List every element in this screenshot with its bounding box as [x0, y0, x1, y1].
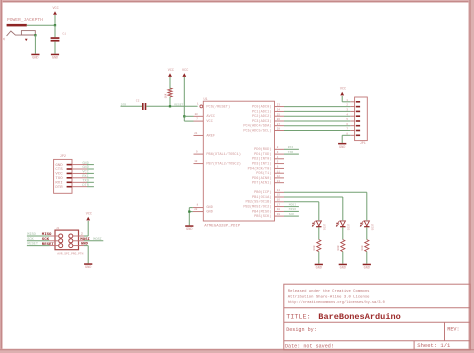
- svg-text:1: 1: [197, 102, 199, 105]
- connector JP1 body: [355, 97, 368, 141]
- wire R2 to ground: [318, 252, 320, 264]
- svg-text:PD7(AIN1): PD7(AIN1): [252, 181, 271, 186]
- LED LED3: [360, 221, 370, 227]
- svg-text:330: 330: [361, 245, 364, 251]
- svg-text:2: 2: [277, 146, 279, 149]
- wire PD0 RXI: [284, 148, 299, 150]
- svg-text:GND: GND: [82, 162, 88, 166]
- J1 ISP pin circles: [59, 234, 73, 248]
- wire VCC arrow stem: [54, 15, 56, 25]
- resistor R4: [365, 240, 369, 252]
- svg-text:13: 13: [277, 180, 281, 183]
- ground symbol below U1: [185, 225, 193, 232]
- svg-text:PD3(INT1): PD3(INT1): [252, 162, 271, 167]
- junction GND net: [188, 210, 190, 212]
- U1 PD4 pin stub: [275, 167, 285, 169]
- wire GND pins to ground: [189, 207, 193, 209]
- title block row line 2: [284, 321, 470, 323]
- svg-text:LED3: LED3: [371, 224, 374, 231]
- svg-text:Sheet: 1/1: Sheet: 1/1: [417, 342, 451, 349]
- svg-text:3: 3: [277, 151, 279, 154]
- svg-text:GND: GND: [82, 166, 88, 170]
- svg-text:28: 28: [277, 128, 281, 131]
- title block divider Sheet: [413, 341, 415, 350]
- svg-text:10: 10: [194, 160, 198, 163]
- U1 PC2 pin stub: [275, 115, 285, 117]
- svg-text:Date: not saved!: Date: not saved!: [285, 344, 334, 350]
- connector J1 ISP body: [55, 230, 79, 250]
- frame border top: [0, 0, 474, 3]
- junction RESET node: [169, 105, 171, 107]
- svg-text:MISO: MISO: [27, 233, 36, 237]
- svg-text:PB0(ICP): PB0(ICP): [254, 190, 271, 195]
- wire JP2 DTR to net DTR: [87, 186, 94, 188]
- svg-text:PB2(SS/OC1B): PB2(SS/OC1B): [246, 200, 272, 205]
- svg-text:PC4(ADC4/SDA): PC4(ADC4/SDA): [243, 124, 271, 129]
- wire PC4 to JP1: [284, 125, 350, 127]
- svg-text:VCC: VCC: [206, 120, 212, 124]
- wire junction to C1: [54, 25, 56, 37]
- svg-text:15: 15: [277, 194, 281, 197]
- J1 pin stub SCK: [50, 240, 56, 242]
- svg-text:AREF: AREF: [206, 134, 215, 138]
- svg-text:17: 17: [277, 203, 281, 206]
- svg-text:11: 11: [277, 170, 281, 173]
- JP2 pin GND pad: [67, 164, 72, 166]
- JP2 pin CTS pad: [67, 168, 72, 170]
- wire PB2 to LED1: [284, 201, 319, 203]
- JP1 pin stubs: [350, 102, 354, 136]
- wire to VCC pin: [184, 120, 193, 122]
- svg-text:VCC: VCC: [55, 173, 63, 177]
- svg-text:VCC: VCC: [340, 88, 346, 92]
- LED LED1: [312, 221, 322, 227]
- connector JP2 body: [54, 159, 72, 193]
- U1 PB1 pin stub: [275, 196, 285, 198]
- wire JP2 RXI to net TXO: [87, 181, 94, 183]
- LED LED2: [336, 221, 346, 227]
- U1 PB3 pin stub: [275, 206, 285, 208]
- wire DTR to C2: [121, 105, 143, 107]
- U1 PD0 pin stub: [275, 148, 285, 150]
- svg-text:TXO: TXO: [82, 180, 88, 184]
- JP2 pin CTS stub: [72, 168, 87, 170]
- svg-text:AVCC: AVCC: [206, 115, 215, 119]
- svg-text:SCK: SCK: [42, 238, 50, 242]
- svg-text:VCC: VCC: [52, 7, 58, 11]
- svg-text:PB1(OC1A): PB1(OC1A): [252, 195, 271, 200]
- svg-text:RXI: RXI: [82, 175, 88, 179]
- title block outline: [284, 284, 470, 350]
- svg-text:MOSI: MOSI: [93, 238, 102, 242]
- JP2 pin GND stub: [72, 164, 87, 166]
- U1 PD6 pin stub: [275, 177, 285, 179]
- svg-text:PB3(MOSI/OC2): PB3(MOSI/OC2): [243, 205, 271, 210]
- svg-text:12: 12: [277, 175, 281, 178]
- ground symbol under R3: [339, 264, 347, 271]
- resistor R1: [168, 88, 172, 97]
- svg-text:PD1(TXD): PD1(TXD): [254, 152, 271, 157]
- wire VCC to R1 top: [169, 77, 171, 89]
- svg-text:PB5(SCK): PB5(SCK): [254, 214, 271, 219]
- wire PB0 to LED3: [284, 191, 367, 193]
- svg-text:CTS: CTS: [55, 168, 63, 172]
- svg-text:PB6(XTAL1/TOSC1): PB6(XTAL1/TOSC1): [206, 152, 241, 157]
- U1 PD1 pin stub: [275, 153, 285, 155]
- wire JP2 VCC to net VCC: [87, 172, 94, 174]
- svg-text:VCC: VCC: [82, 171, 88, 175]
- U1 PC0 pin stub: [275, 106, 285, 108]
- capacitor C2: [142, 103, 146, 110]
- resistor R3: [341, 240, 345, 252]
- JP2 pin DTR stub: [72, 186, 87, 188]
- svg-text:VCC: VCC: [86, 213, 92, 217]
- JP2 pin RXI stub: [72, 181, 87, 183]
- U1 PB2 pin stub: [275, 201, 285, 203]
- wire PB3 MOSI: [284, 206, 299, 208]
- svg-text:PC2(ADC2): PC2(ADC2): [252, 114, 271, 119]
- wire PC0 to JP1: [284, 106, 350, 108]
- svg-text:GND: GND: [52, 57, 58, 61]
- U1 PB4 pin stub: [275, 210, 285, 212]
- wire jack sleeve to ground: [34, 35, 36, 54]
- svg-text:24: 24: [277, 109, 281, 112]
- svg-text:Design by:: Design by:: [286, 327, 317, 333]
- wire PC2 to JP1: [284, 115, 350, 117]
- connector J1 power jack detect contact rectangle: [21, 31, 35, 35]
- svg-text:22: 22: [194, 208, 198, 211]
- U1 PC3 pin stub: [275, 120, 285, 122]
- svg-text:330: 330: [313, 245, 316, 251]
- frame border left: [0, 0, 3, 353]
- wire PB5 SCK: [284, 215, 299, 217]
- svg-text:PD6(AIN0): PD6(AIN0): [252, 176, 271, 181]
- svg-text:PC3(ADC3): PC3(ADC3): [252, 119, 271, 124]
- svg-text:PD0(RXD): PD0(RXD): [254, 147, 271, 152]
- svg-text:21: 21: [194, 132, 198, 135]
- U1 PD2 pin stub: [275, 158, 285, 160]
- frame border bottom: [0, 349, 474, 353]
- U1 PC5 pin stub: [275, 130, 285, 132]
- svg-text:LED2: LED2: [347, 224, 350, 231]
- svg-text:MOSI: MOSI: [289, 203, 296, 206]
- wire R4 to ground: [366, 252, 368, 264]
- svg-text:AVR_SPI_PRG_PTH: AVR_SPI_PRG_PTH: [57, 253, 83, 256]
- svg-text:GND: GND: [32, 57, 38, 61]
- svg-text:JP1: JP1: [360, 142, 366, 146]
- ground symbol under C1: [51, 54, 59, 61]
- JP1 pin pads: [356, 101, 360, 136]
- power VCC symbol above R1: [168, 69, 174, 77]
- svg-text:RESET: RESET: [42, 243, 55, 247]
- wire VCC down to AVCC/VCC pins: [183, 77, 185, 121]
- U1 PB7 XTAL2 pin stub: [194, 163, 204, 165]
- U1 VCC pin stub: [194, 120, 204, 122]
- wire C1 to ground: [54, 42, 56, 54]
- svg-text:SCK: SCK: [289, 213, 295, 216]
- svg-text:SCK: SCK: [27, 238, 34, 242]
- svg-text:GND: GND: [316, 267, 322, 271]
- junction AVCC node: [183, 115, 185, 117]
- svg-text:ATMEGA328P_PDIP: ATMEGA328P_PDIP: [204, 224, 241, 228]
- svg-text:Released under the Creative Co: Released under the Creative Commons: [288, 289, 370, 294]
- wire C2 to RESET junction: [146, 105, 170, 107]
- U1 PB0 pin stub: [275, 191, 285, 193]
- wire LED2 to R3: [342, 227, 344, 239]
- wire PB4 MISO: [284, 210, 299, 212]
- title block divider REV: [444, 322, 446, 340]
- U1 GND pin 22 stub: [193, 211, 204, 213]
- ground symbol under R4: [363, 264, 371, 271]
- svg-text:23: 23: [277, 104, 281, 107]
- U1 right pin names: [243, 105, 271, 220]
- ground symbol under R2: [315, 264, 323, 271]
- svg-text:RXI: RXI: [55, 182, 62, 186]
- svg-text:PC0(ADC0): PC0(ADC0): [252, 105, 271, 110]
- svg-text:26: 26: [277, 118, 281, 121]
- svg-text:U1: U1: [204, 98, 208, 102]
- resistor R2: [317, 240, 321, 252]
- svg-text:PD5(T1): PD5(T1): [256, 171, 271, 176]
- svg-text:J1: J1: [56, 227, 60, 230]
- wire RESET to U1 pin 1: [171, 105, 198, 107]
- svg-text:GND: GND: [55, 164, 63, 168]
- svg-text:POWER_JACKPTH: POWER_JACKPTH: [7, 17, 43, 23]
- svg-text:RXI: RXI: [288, 146, 294, 149]
- svg-text:JP2: JP2: [60, 155, 66, 159]
- svg-text:8: 8: [197, 204, 199, 207]
- svg-text:C2: C2: [136, 100, 140, 103]
- svg-text:2: 2: [81, 232, 83, 235]
- svg-text:10K: 10K: [164, 93, 167, 98]
- wire PC3 to JP1: [284, 120, 350, 122]
- svg-text:PC6(/RESET): PC6(/RESET): [206, 105, 230, 110]
- wire JP2 TXO to net RXI: [87, 177, 94, 179]
- svg-text:16: 16: [277, 199, 281, 202]
- wire PC5 to JP1: [284, 130, 350, 132]
- svg-text:GND: GND: [340, 267, 346, 271]
- power VCC symbol above JP1: [340, 88, 346, 96]
- wire J1 GND pin down: [79, 245, 85, 247]
- J1 pin stub RESET: [50, 245, 56, 247]
- U1 AREF pin stub: [194, 134, 204, 136]
- svg-text:PD4(XCK/T0): PD4(XCK/T0): [248, 166, 272, 171]
- U1 PC4 pin stub: [275, 125, 285, 127]
- svg-text:18: 18: [277, 208, 281, 211]
- svg-text:GND: GND: [85, 266, 91, 270]
- svg-text:VCC: VCC: [168, 69, 174, 73]
- power VCC symbol above J1: [86, 213, 92, 221]
- wire J1 MOSI pin: [79, 240, 85, 242]
- ground symbol under jack: [31, 54, 39, 61]
- wire R1 bottom to junction: [169, 97, 171, 106]
- op-amp U1 ATMEGA328P body: [203, 101, 274, 221]
- JP2 pin VCC stub: [72, 172, 87, 174]
- ground symbol below J1: [84, 263, 92, 270]
- svg-text:http://creativecommons.org/lic: http://creativecommons.org/licenses/by-s…: [288, 300, 385, 305]
- svg-text:LED1: LED1: [323, 224, 326, 231]
- svg-text:PC5(ADC5/SCL): PC5(ADC5/SCL): [243, 128, 271, 133]
- U1 PD3 pin stub: [275, 163, 285, 165]
- wire LED3 to R4: [366, 227, 368, 239]
- U1 PC1 pin stub: [275, 110, 285, 112]
- connector J1 switch arrow: [25, 39, 28, 41]
- connector J1 power jack barrel pin (thick bar): [7, 24, 27, 27]
- svg-text:DTR: DTR: [55, 186, 63, 190]
- wire JP1 pin8 to GND: [342, 134, 350, 136]
- power VCC symbol above AVCC: [182, 69, 188, 77]
- title block row line 1: [284, 307, 470, 309]
- svg-text:MISO: MISO: [42, 233, 52, 237]
- svg-text:20: 20: [195, 113, 199, 116]
- svg-text:PC1(ADC1): PC1(ADC1): [252, 109, 271, 114]
- J1 pin stub MISO: [50, 235, 56, 237]
- power VCC symbol (top-left): [52, 7, 58, 15]
- svg-text:MISO: MISO: [289, 208, 296, 211]
- wire SCK to J1: [27, 240, 50, 242]
- svg-text:GND: GND: [186, 228, 192, 232]
- U1 AVCC pin stub: [194, 115, 204, 117]
- JP2 pin TXO pad: [67, 177, 72, 179]
- U1 PD7 pin stub: [275, 182, 285, 184]
- svg-text:GND: GND: [206, 211, 212, 215]
- svg-text:GND: GND: [339, 146, 345, 150]
- svg-text:VCC: VCC: [182, 69, 188, 73]
- wire jack bar to VCC junction: [27, 24, 55, 26]
- svg-text:J1: J1: [3, 37, 6, 41]
- U1 PB6 XTAL1 pin stub: [194, 153, 204, 155]
- svg-text:19: 19: [277, 213, 281, 216]
- wire JP2 CTS to net GND: [87, 168, 94, 170]
- svg-text:PB4(MISO): PB4(MISO): [252, 209, 271, 214]
- wire JP2 GND to net GND: [87, 164, 94, 166]
- svg-text:BareBonesArduino: BareBonesArduino: [318, 312, 401, 322]
- svg-text:RESET: RESET: [27, 243, 39, 247]
- svg-text:DTR: DTR: [82, 184, 89, 188]
- svg-text:TXO: TXO: [288, 151, 294, 154]
- JP2 pin TXO stub: [72, 177, 87, 179]
- wire MISO to J1: [27, 235, 50, 237]
- wire LED1 to R2: [318, 227, 320, 239]
- wire R3 to ground: [342, 252, 344, 264]
- U1 left pin names: [206, 105, 241, 215]
- JP2 pin DTR pad: [67, 186, 72, 188]
- svg-text:27: 27: [277, 123, 281, 126]
- svg-text:330: 330: [337, 245, 340, 251]
- wire J1 VCC pin up: [79, 235, 85, 237]
- svg-text:GND: GND: [206, 206, 212, 210]
- svg-text:Attribution Share-Alike 3.0 Li: Attribution Share-Alike 3.0 License: [288, 295, 370, 300]
- svg-text:14: 14: [277, 189, 281, 192]
- wire PB1 to LED2: [284, 196, 343, 198]
- svg-text:7: 7: [196, 118, 198, 121]
- junction at jack output node: [54, 24, 56, 26]
- junction at jack sleeve node: [34, 34, 36, 36]
- connector J1 power jack sleeve spring: [7, 31, 36, 36]
- U1 PD5 pin stub: [275, 172, 285, 174]
- svg-text:REV:: REV:: [447, 327, 459, 333]
- JP2 pin VCC pad: [67, 173, 72, 175]
- frame border right: [468, 0, 474, 353]
- wire RESET to J1: [27, 245, 50, 247]
- svg-text:TITLE:: TITLE:: [286, 314, 310, 322]
- title block row line 3: [284, 340, 470, 342]
- wire PD1 TXO: [284, 153, 299, 155]
- capacitor C1: [51, 37, 60, 41]
- svg-text:PB7(XTAL2/TOSC2): PB7(XTAL2/TOSC2): [206, 162, 241, 167]
- svg-text:TXO: TXO: [55, 177, 63, 181]
- JP2 pin RXI pad: [67, 182, 72, 184]
- wire to AVCC pin: [184, 115, 193, 117]
- wire PC1 to JP1: [284, 110, 350, 112]
- ground symbol below JP1: [338, 143, 346, 150]
- U1 pin 1 inversion bubble: [200, 105, 203, 108]
- svg-text:PD2(INT0): PD2(INT0): [252, 157, 271, 162]
- svg-text:9: 9: [196, 151, 198, 154]
- svg-text:25: 25: [277, 113, 281, 116]
- U1 GND pin 8 stub: [193, 207, 204, 209]
- svg-text:GND: GND: [364, 267, 370, 271]
- wire JP1 pin1 to VCC: [342, 101, 350, 103]
- J1 ISP internal pin stubs: [55, 236, 79, 246]
- U1 PB5 pin stub: [275, 215, 285, 217]
- svg-text:C1: C1: [62, 33, 66, 36]
